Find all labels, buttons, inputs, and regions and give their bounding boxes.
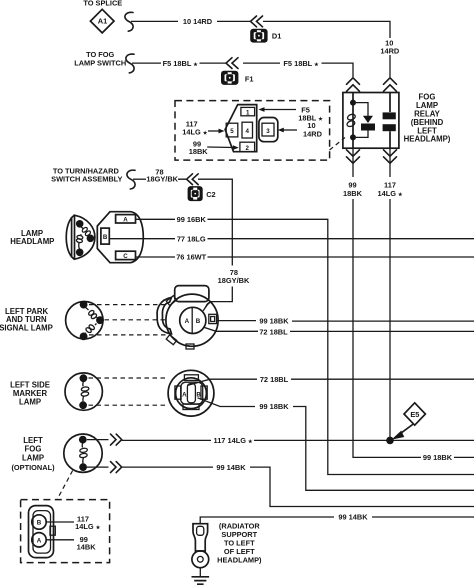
svg-text:2: 2	[245, 145, 249, 152]
svg-text:18GY/BK: 18GY/BK	[146, 174, 178, 183]
svg-text:99 16BK: 99 16BK	[177, 215, 207, 224]
svg-text:C2: C2	[206, 190, 215, 199]
svg-text:99 18BK: 99 18BK	[259, 402, 289, 411]
svg-text:76 16WT: 76 16WT	[176, 253, 206, 262]
svg-text:LAMP SWITCH: LAMP SWITCH	[74, 59, 126, 68]
relay caption	[404, 93, 451, 144]
wire 10 14RD	[125, 12, 400, 77]
svg-text:18BK: 18BK	[189, 147, 209, 156]
radiator caption	[217, 522, 262, 565]
svg-text:99 18BK: 99 18BK	[259, 317, 289, 326]
svg-text:5: 5	[230, 128, 234, 135]
marker connector	[168, 370, 214, 416]
wire 72 18BL park	[203, 327, 474, 336]
svg-text:3: 3	[266, 128, 270, 135]
fog lamp relay	[343, 78, 399, 164]
svg-text:18BK: 18BK	[343, 189, 363, 198]
svg-text:TO SPLICE: TO SPLICE	[83, 0, 122, 8]
svg-text:B: B	[37, 520, 42, 527]
svg-text:99 14BK: 99 14BK	[338, 513, 368, 522]
svg-text:14RD: 14RD	[380, 46, 400, 55]
wire 99 18BK marker	[198, 398, 474, 491]
fog lamp connector B/A	[29, 506, 101, 558]
connector face view	[225, 105, 278, 152]
wire 77 18LG	[109, 234, 474, 243]
svg-text:A1: A1	[98, 17, 107, 26]
svg-text:F5 18BL ★: F5 18BL ★	[163, 59, 199, 68]
svg-text:F1: F1	[245, 75, 254, 84]
svg-text:TO FOG: TO FOG	[86, 50, 114, 59]
wire 99 18BK from relay	[343, 148, 474, 462]
svg-text:99 14BK: 99 14BK	[216, 463, 246, 472]
left fog lamp	[11, 434, 102, 499]
connector detail labels	[182, 105, 323, 155]
svg-text:E5: E5	[410, 410, 419, 419]
dashed connector detail box	[175, 101, 345, 161]
relay contact	[383, 93, 396, 149]
svg-text:A: A	[123, 216, 128, 223]
left side marker lamp	[10, 373, 167, 410]
svg-text:14LG ★: 14LG ★	[75, 522, 101, 531]
wire F5 18BL to fog lamp switch	[74, 50, 353, 77]
svg-text:F5 18BL ★: F5 18BL ★	[283, 59, 319, 68]
wire 99 18BK park	[217, 317, 474, 326]
left park and turn signal lamp	[0, 301, 166, 341]
svg-text:72 18BL: 72 18BL	[259, 327, 288, 336]
svg-text:HEADLAMP: HEADLAMP	[10, 237, 54, 246]
svg-text:(OPTIONAL): (OPTIONAL)	[11, 463, 55, 472]
svg-text:SWITCH ASSEMBLY: SWITCH ASSEMBLY	[51, 175, 122, 184]
svg-text:LEFT: LEFT	[23, 436, 43, 445]
svg-text:99 18BK: 99 18BK	[423, 453, 453, 462]
wire 78 18GY/BK	[51, 166, 250, 307]
node A1 splice	[83, 0, 122, 33]
svg-text:A: A	[185, 318, 190, 325]
svg-text:117 14LG ★: 117 14LG ★	[214, 436, 254, 445]
svg-text:14RD: 14RD	[303, 129, 323, 138]
relay diode	[353, 103, 375, 138]
svg-text:A: A	[182, 391, 187, 398]
svg-text:C: C	[123, 253, 128, 260]
svg-text:1: 1	[246, 110, 250, 117]
wire 99 14BK fog	[87, 462, 474, 507]
headlamp	[10, 215, 95, 259]
wire 72 18BL marker	[188, 375, 474, 385]
headlamp connector	[97, 212, 143, 263]
wire 117 14LG fog	[87, 434, 474, 445]
svg-text:18GY/BK: 18GY/BK	[218, 276, 250, 285]
svg-text:14LG ★: 14LG ★	[182, 127, 208, 136]
node E5	[386, 403, 425, 444]
svg-text:72 18BL: 72 18BL	[260, 375, 289, 384]
svg-text:LAMP: LAMP	[22, 453, 44, 462]
svg-text:10 14RD: 10 14RD	[183, 17, 213, 26]
svg-text:14BK: 14BK	[77, 542, 97, 551]
relay coil	[346, 93, 356, 149]
svg-text:4: 4	[245, 128, 249, 135]
ground wire 99 14BK	[200, 513, 474, 524]
connector D1	[250, 16, 281, 43]
svg-text:SIGNAL LAMP: SIGNAL LAMP	[0, 324, 53, 333]
svg-text:A: A	[37, 538, 42, 545]
wire 76 16WT	[136, 253, 474, 262]
svg-text:HEADLAMP): HEADLAMP)	[217, 556, 262, 565]
connector F1	[221, 58, 254, 85]
svg-text:FOG: FOG	[25, 445, 42, 454]
svg-text:HEADLAMP): HEADLAMP)	[404, 135, 451, 144]
park/turn connector	[157, 286, 218, 349]
svg-text:LAMP: LAMP	[19, 398, 41, 407]
ground terminal	[192, 524, 210, 585]
svg-text:D1: D1	[272, 32, 281, 41]
svg-text:77 18LG: 77 18LG	[177, 234, 206, 243]
bottom dashed box	[21, 500, 110, 563]
wire 99 16BK	[136, 215, 474, 475]
connector C2	[187, 174, 216, 201]
wire 117 14LG from relay	[377, 148, 403, 440]
svg-text:14LG ★: 14LG ★	[377, 189, 403, 198]
svg-text:B: B	[196, 391, 201, 398]
svg-text:B: B	[103, 234, 108, 241]
svg-text:B: B	[196, 318, 201, 325]
